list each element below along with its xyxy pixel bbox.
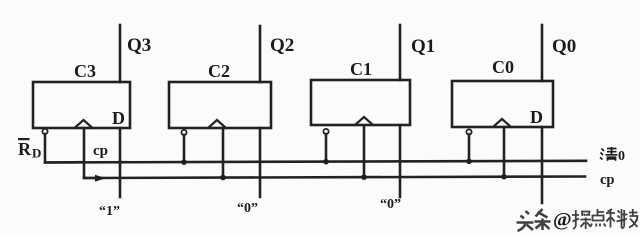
svg-text:“1”: “1” — [99, 204, 120, 219]
clear bus wire — [45, 161, 586, 163]
wire D input U1 — [119, 128, 122, 197]
wire clock U2 to cp bus — [222, 128, 225, 178]
clock edge triangle U4 — [493, 119, 511, 127]
arrowhead on cp bus — [95, 175, 106, 182]
wm char tou — [517, 211, 534, 231]
flip-flop U1 body — [33, 82, 130, 128]
cp bus wire — [84, 177, 585, 179]
svg-text:R: R — [18, 139, 32, 159]
wire D input U4 — [541, 127, 544, 203]
svg-text:C3: C3 — [74, 61, 96, 81]
wire D input U2 — [259, 128, 262, 197]
net label qing0 (clear) — [600, 147, 618, 161]
svg-text:Q1: Q1 — [411, 36, 435, 57]
junction cp-U2 — [220, 175, 226, 181]
svg-text:@: @ — [553, 209, 572, 231]
wire clock U3 to cp bus — [363, 126, 366, 177]
wire clock U1 to cp bus — [84, 128, 95, 178]
svg-text:C1: C1 — [350, 59, 372, 79]
junction cp-U3 — [361, 174, 367, 180]
flip-flop U4 body — [452, 81, 553, 127]
clock edge triangle U2 — [208, 120, 226, 128]
svg-text:C2: C2 — [208, 61, 230, 81]
svg-text:cp: cp — [93, 143, 108, 159]
inverter bubble RD U4 — [466, 129, 471, 134]
svg-text:“0”: “0” — [237, 201, 258, 216]
flip-flop U2 body — [169, 82, 271, 128]
inverter bubble RD U1 — [42, 129, 47, 134]
inverter bubble RD U2 — [181, 130, 186, 135]
junction clear-U3 — [323, 159, 329, 165]
wire RD U4 to clear bus — [468, 135, 471, 162]
junction cp-U4 — [501, 174, 507, 180]
wire RD U2 to clear bus — [183, 135, 186, 162]
wire Q0 output — [541, 25, 544, 81]
watermark toutiao @tandiankeji — [517, 209, 638, 231]
wm char ji — [621, 209, 638, 229]
wm char tiao — [535, 209, 551, 230]
flip-flop U3 body — [311, 80, 410, 125]
wm char ke — [606, 209, 625, 228]
clock edge triangle U1 — [75, 120, 93, 128]
svg-text:Q3: Q3 — [127, 35, 151, 56]
wm char dian — [591, 209, 606, 227]
wire RD U3 to clear bus — [325, 134, 328, 162]
wire RD U1 to clear bus — [45, 134, 84, 163]
svg-text:Q0: Q0 — [552, 36, 576, 57]
junction clear-U4 — [466, 159, 472, 165]
junction clear-U2 — [181, 159, 187, 165]
svg-text:cp: cp — [600, 172, 615, 188]
wire D input U3 — [399, 125, 402, 197]
svg-text:“0”: “0” — [380, 197, 401, 212]
wire clock U4 to cp bus — [503, 127, 506, 177]
svg-text:C0: C0 — [492, 57, 514, 77]
wire Q2 output — [259, 26, 262, 82]
inverter bubble RD U3 — [323, 129, 328, 134]
clock edge triangle U3 — [355, 117, 373, 125]
wire Q1 output — [399, 25, 402, 80]
svg-text:Q2: Q2 — [270, 35, 294, 56]
overline of RD — [18, 138, 30, 140]
svg-text:D: D — [530, 107, 543, 127]
wire Q3 output — [119, 25, 122, 82]
svg-text:D: D — [32, 146, 41, 161]
svg-text:D: D — [112, 108, 125, 128]
svg-text:0: 0 — [618, 149, 625, 164]
wm char tan — [572, 210, 591, 229]
